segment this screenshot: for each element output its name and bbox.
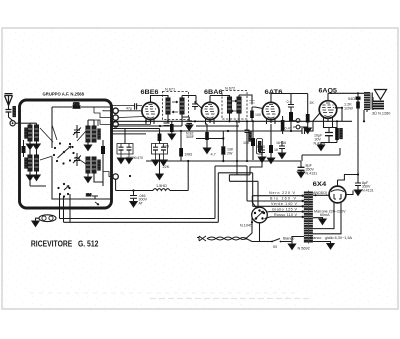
T1 tuning arrows: [172, 101, 178, 113]
coil L4 MW secondary: [35, 155, 39, 171]
wire cluster feed line y128.5: [112, 128, 160, 130]
arrow Marrone: [322, 217, 324, 219]
capacitor C-ant 200pF: [6, 110, 12, 113]
ground below L3: [29, 171, 31, 175]
ground V2 cathode: [203, 148, 210, 153]
svg-text:RICEVITORE G. 512: RICEVITORE G. 512: [31, 239, 99, 248]
wire T1 secondary bottom: [181, 114, 183, 126]
ground 16+16: [278, 153, 285, 158]
resistor 1.2K body: [356, 102, 360, 109]
node antenna terminal: [10, 121, 15, 126]
power transformer PT secondary winding: [309, 192, 313, 243]
label 200 antenna: [13, 107, 15, 117]
node .046 tap: [132, 189, 134, 191]
label 16+16 vertical: [259, 142, 261, 152]
ground 8uF right: [354, 190, 361, 195]
ground pair1 a: [117, 158, 124, 163]
resistor 50: [158, 134, 162, 142]
wire pilot lamp left: [36, 218, 40, 221]
tube V4 6AQ5 envelope: [319, 101, 337, 119]
capacitor pair2 a: [153, 147, 158, 150]
wire load resistor down: [290, 121, 292, 131]
wire T2 secondary bottom: [238, 113, 240, 123]
label coil 0500: [25, 128, 27, 138]
output transformer OT core: [364, 92, 370, 110]
wire 10K leads: [252, 121, 254, 160]
wire 16+16: [281, 141, 283, 153]
wire AVC bus y131: [112, 130, 291, 132]
capacitor 47pF grid series: [135, 103, 137, 109]
ground below L4: [36, 171, 38, 175]
wire V4 plate to OT: [328, 92, 364, 94]
wire 22K branch: [159, 154, 161, 174]
wire bundle vertical x237: [236, 121, 238, 161]
wire T1 primary bottom: [167, 114, 169, 121]
svg-text:Blu 160 V: Blu 160 V: [270, 197, 297, 201]
svg-text:5000: 5000: [257, 145, 265, 149]
node bundle dots on B+ line: [222, 160, 224, 162]
svg-text:Bianco: Bianco: [310, 236, 321, 240]
wire cord to selector: [246, 218, 252, 239]
wire T1 secondary top to 6BA6 grid: [182, 96, 202, 109]
svg-text:giallo 6,3V~1,5A: giallo 6,3V~1,5A: [325, 236, 352, 240]
ground pair2 a: [152, 160, 159, 165]
node anode junction: [315, 194, 317, 196]
svg-text:6X4: 6X4: [313, 181, 327, 188]
wire tap Nero: [252, 196, 304, 209]
svg-text:Rosso 110 V: Rosso 110 V: [274, 213, 298, 217]
shield box GRUPPO AF: [20, 100, 112, 208]
svg-text:N.672: N.672: [225, 87, 235, 91]
resistor R-pad: [22, 146, 26, 153]
power plug X: [197, 236, 206, 241]
resistor 150: [73, 105, 81, 109]
coil L6 osc secondary: [92, 126, 96, 142]
node terminal G1: [113, 108, 118, 113]
tube V2 6BA6 envelope: [201, 102, 218, 119]
wire left column vertical: [30, 123, 37, 125]
wire coils to terminals: [94, 107, 113, 126]
capacitor AVC N.82: [187, 121, 193, 124]
svg-text:N.4131: N.4131: [306, 171, 318, 175]
node B+ join: [357, 173, 359, 175]
ground Bianco left: [291, 242, 293, 245]
selector plug SV N.1045: [252, 207, 268, 223]
wire giallo stub: [313, 242, 331, 244]
svg-text:Nero 220 V: Nero 220 V: [269, 191, 296, 195]
tube V3 pins: [267, 96, 276, 124]
svg-text:1MΩ: 1MΩ: [185, 153, 193, 157]
wire 5000 leads: [261, 146, 263, 157]
capacitor pair1 a: [119, 147, 124, 150]
wire 6AT6 plate right: [271, 94, 308, 113]
coil T2 primary: [228, 97, 232, 113]
speaker LS voice coil: [373, 101, 385, 108]
potentiometer volume 2M: [88, 196, 102, 199]
tube V5 internals: [331, 190, 344, 199]
wire bottom bus B: [64, 221, 219, 223]
svg-text:300F: 300F: [186, 135, 194, 139]
wire antenna lead: [8, 105, 10, 109]
label coil 0600: [98, 129, 100, 139]
resistor 10K detector: [251, 138, 255, 146]
trimmer cap CT1: [73, 128, 81, 136]
wire osc column bottom: [94, 160, 103, 186]
capacitor 0.1 bundle: [245, 130, 250, 133]
resistor 10K 2W: [221, 146, 225, 154]
ground L5: [87, 142, 89, 145]
wire 6X4 cathode to B+: [338, 175, 354, 195]
wire selector bottom to cord: [246, 223, 260, 242]
wire B+ screen line y161: [146, 160, 301, 162]
node P.U. terminal 2: [296, 125, 300, 129]
ground 22K: [156, 174, 163, 179]
ground below L1: [29, 141, 31, 144]
node tap dots at transformer: [302, 195, 304, 219]
resistor 1K AT6: [269, 145, 273, 153]
ground 5000: [258, 157, 265, 162]
tube V4 internals: [322, 103, 334, 117]
node V4 plate junction: [357, 92, 359, 94]
coil T2 secondary: [237, 97, 241, 113]
wire bottom bus A: [60, 218, 216, 220]
wire V2 plate to T2: [210, 96, 230, 98]
resistor 100 grid: [250, 111, 254, 119]
pilot lamp P1: [39, 215, 56, 222]
capacitor 6AT6 plate: [288, 105, 294, 108]
resistor 6AT6 load: [289, 112, 293, 121]
resistor 1M: [179, 148, 183, 157]
svg-text:10K: 10K: [243, 141, 250, 145]
power transformer PT primary winding: [304, 192, 308, 243]
speaker LS cone: [375, 90, 387, 100]
choke 1.5H: [153, 189, 170, 191]
capacitor 5000: [259, 150, 265, 153]
wire V1 plate to T1: [151, 96, 169, 99]
label 0.1 vertical: [249, 131, 251, 141]
power cord twisted pair: [207, 237, 246, 240]
wire pot column stubs: [282, 116, 284, 134]
wire tap Rosso: [265, 217, 304, 219]
coil T1 primary: [166, 98, 170, 114]
scan smudge row: [150, 298, 310, 300]
wire T2 primary bottom: [229, 113, 231, 121]
wire heater run B: [218, 173, 252, 223]
ground below L2: [36, 141, 38, 144]
wire 8uF left: [300, 161, 302, 172]
tube V3 internals: [266, 105, 276, 119]
svg-text:6BA6: 6BA6: [204, 89, 223, 96]
capacitor pair2 b: [161, 147, 166, 150]
tube V5 6X4 envelope: [329, 186, 346, 203]
IF transformer T1 N.671 dashed box: [163, 92, 189, 120]
svg-text:1K: 1K: [274, 148, 279, 152]
node screen feed: [222, 137, 224, 139]
wire 8uF right: [357, 175, 359, 191]
svg-text:150: 150: [73, 102, 79, 106]
wire heater 6.3V: [313, 203, 341, 234]
wire switch to Bianco: [285, 237, 304, 242]
wire screen line y155: [302, 148, 340, 161]
wire resistor T1L: [171, 121, 173, 134]
wire V2 screen cap: [195, 101, 207, 124]
wire pair1 feed: [124, 129, 126, 144]
wire 10K leads: [222, 131, 224, 161]
wire 1K leads: [270, 124, 272, 158]
ground cathode: [317, 145, 324, 150]
wire choke to B+ riser: [187, 161, 189, 191]
ground grid leak: [304, 128, 311, 133]
capacitor 10uF cathode: [325, 133, 333, 136]
tube V3 6AT6 envelope: [262, 102, 279, 119]
capacitor 16+16: [279, 146, 285, 149]
node choke riser: [187, 160, 189, 162]
rotary switch S2 wafer: [57, 183, 70, 198]
svg-text:Verde 140 V: Verde 140 V: [271, 202, 298, 206]
svg-text:1/2W: 1/2W: [344, 107, 353, 111]
rotary switch S1 wafer: [53, 142, 75, 164]
svg-text:N.82K/470: N.82K/470: [127, 156, 144, 160]
T2 tuning arrows: [231, 100, 237, 112]
svg-text:N 5692: N 5692: [298, 247, 310, 251]
wire V2 cathode chain: [206, 124, 208, 148]
switch S3 mains: [272, 239, 285, 242]
wire cord to switch: [260, 241, 273, 243]
wire tap Giallo: [266, 211, 304, 213]
coil L3 MW primary: [28, 155, 32, 171]
svg-text:4.7: 4.7: [211, 153, 216, 157]
svg-text:60mA: 60mA: [320, 213, 330, 217]
wire switch to coils links: [40, 125, 86, 164]
svg-text:6AT6: 6AT6: [265, 89, 283, 96]
wire antenna terminal into box: [15, 122, 30, 124]
trimmer cap CT2: [73, 156, 81, 164]
wire HT stub right: [313, 216, 323, 219]
svg-text:0/I: 0/I: [273, 245, 277, 249]
wire jog run to selector: [229, 155, 262, 209]
tube V1 pins: [146, 98, 154, 124]
wire speaker leads: [372, 97, 374, 110]
coil L1 antenna primary: [28, 125, 32, 141]
wire cap AVC: [188, 117, 190, 125]
svg-text:16+16: 16+16: [276, 141, 286, 145]
capacitor coupling 6AQ5: [302, 128, 305, 134]
wire P.U. stubs: [293, 121, 296, 128]
wire tap Blu: [247, 200, 304, 202]
tube V1 internals: [145, 105, 156, 119]
svg-text:22K: 22K: [163, 165, 170, 169]
svg-text:0.47: 0.47: [285, 127, 292, 131]
wire R-osc leads: [102, 140, 104, 160]
wire coupling to grid: [305, 113, 320, 131]
label coil 2000: [98, 160, 100, 170]
svg-text:Giallo 125 V: Giallo 125 V: [272, 207, 298, 211]
coil L7 osc MW: [86, 157, 90, 173]
ground resistor T1L: [168, 134, 175, 139]
tube V2 pins: [206, 96, 215, 125]
wire grid resistor down: [251, 118, 253, 121]
capacitor .046 300V: [130, 191, 137, 202]
label 330ohm: [340, 129, 342, 139]
ground 8uF left: [297, 172, 304, 177]
svg-text:3Ω N.1280: 3Ω N.1280: [372, 112, 390, 116]
wire 0.1 leads: [246, 121, 248, 161]
resistor grid leak 6AQ5: [306, 114, 310, 123]
ground pilot lamp: [32, 221, 39, 226]
wire screen feed y138.5: [196, 138, 223, 140]
wire B+ vertical: [344, 93, 358, 174]
capacitor T1 foot: [164, 123, 170, 126]
wire lower terminal inner: [103, 172, 113, 177]
resistor 54 ohm tone: [356, 97, 361, 100]
switch S2 rotor: [64, 186, 69, 191]
wire 6AT6 load to coupling: [291, 130, 302, 132]
wire left column to bottom: [30, 180, 46, 187]
wire T1 sec bottom to AVC: [182, 114, 189, 117]
resistor R-osc: [101, 146, 105, 154]
ground cap AVC: [186, 125, 193, 130]
power transformer PT core: [307, 191, 309, 244]
wire V4 grid right stub: [335, 108, 342, 122]
wire terminals to tube: [112, 106, 151, 125]
svg-text:N.1045: N.1045: [240, 224, 252, 228]
wire bus under tubes y121: [112, 120, 352, 122]
svg-text:2W: 2W: [227, 152, 233, 156]
trimmer bracket pair1: [117, 144, 133, 155]
wire center vertical: [52, 107, 88, 199]
coil L5 osc primary: [86, 126, 90, 142]
resistor V2 cathode low: [205, 132, 209, 140]
coil T1 secondary: [180, 98, 184, 114]
wire trimmer CT2: [76, 153, 78, 166]
node terminal G2: [113, 115, 118, 120]
resistor 330ohm cathode: [335, 128, 339, 140]
capacitor T2 grid: [249, 101, 255, 104]
wire HT secondary to 6X4 anode: [313, 194, 329, 196]
tube V5 pins: [334, 202, 341, 205]
capacitor pair1 b: [127, 147, 132, 150]
wire cathode chain: [321, 121, 337, 145]
label coil 1000: [25, 158, 27, 168]
svg-text:Bianco: Bianco: [283, 237, 294, 241]
ground cap .046: [130, 202, 137, 207]
svg-text:2M: 2M: [86, 193, 91, 197]
resistor under T1 left: [170, 124, 174, 132]
svg-text:1.5HΩ: 1.5HΩ: [156, 184, 167, 188]
wire 1M leads: [180, 131, 182, 161]
node V4 grid stub: [341, 107, 343, 109]
svg-text:2K: 2K: [310, 101, 315, 105]
node junctions bus: [167, 120, 169, 122]
node P.U. terminal 1: [296, 119, 300, 123]
tube V1 6BE6 envelope: [142, 102, 159, 119]
svg-text:GRUPPO A.F. N.2568: GRUPPO A.F. N.2568: [43, 92, 85, 97]
svg-text:47µ: 47µ: [126, 107, 132, 111]
wire coils L3 L4 top: [30, 150, 37, 155]
ground L7: [87, 173, 89, 177]
wire AF out line y190.5: [116, 180, 189, 191]
capacitor 8uF right: [355, 183, 361, 186]
wire OT bottom: [364, 110, 367, 121]
svg-text:54Ω: 54Ω: [348, 97, 355, 101]
tube V2 internals: [205, 105, 215, 119]
wire pair1 cap leads: [121, 144, 129, 159]
node cord junctions: [245, 237, 247, 239]
wire AVC stub y133.9: [112, 133, 146, 135]
wire bus under tubes y126: [112, 125, 239, 127]
wire pair2 cap leads: [156, 144, 164, 161]
trimmer bracket pair2: [152, 144, 168, 155]
wire R-pad leads: [23, 140, 25, 157]
svg-text:N.671: N.671: [165, 88, 175, 92]
ground heater: [327, 244, 334, 249]
wire antenna to terminal: [9, 112, 13, 121]
wire pot to box edge: [102, 198, 112, 200]
wire resistor 50 lead: [159, 129, 161, 144]
svg-text:N.4131: N.4131: [362, 188, 374, 192]
wire osc coils top: [88, 120, 94, 126]
wire tap Verde: [253, 205, 304, 207]
wire trimmer CT1: [76, 125, 78, 138]
selector arrow: [255, 211, 264, 220]
coil L2 antenna secondary: [35, 125, 39, 141]
potentiometer 1M volume column: [281, 120, 285, 132]
tube V4 pins: [324, 93, 333, 128]
wire T2 secondary top: [239, 95, 252, 103]
switch S1 rotor arrows: [64, 146, 71, 152]
wire heater run A: [215, 166, 247, 219]
node terminal G3: [113, 122, 118, 127]
IF transformer T2 N.672 dashed box: [222, 91, 247, 120]
antenna A1: [5, 94, 13, 106]
wire grid leak: [300, 112, 308, 128]
ground pair1 b: [125, 158, 132, 163]
capacitor V2 screen: [192, 104, 198, 107]
node terminal lower: [113, 174, 118, 179]
ground 1K: [267, 158, 274, 163]
electrolytic can 16+16 outline: [257, 139, 263, 155]
wire S2 drops through box bottom: [60, 194, 71, 222]
coil L8 osc MW sec: [92, 157, 96, 173]
svg-text:6BE6: 6BE6: [141, 89, 159, 96]
ground pair2 b: [160, 160, 167, 165]
svg-text:100: 100: [255, 113, 261, 117]
wire 6AT6 grid: [252, 103, 263, 111]
wire box top internal line: [52, 106, 112, 108]
capacitor 8uF 350V left: [298, 167, 305, 170]
